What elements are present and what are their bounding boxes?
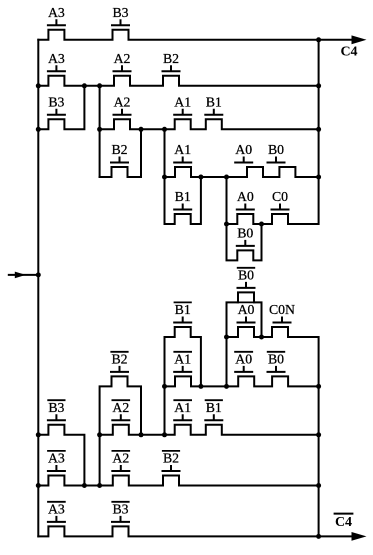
svg-text:B1: B1 — [206, 400, 222, 415]
wire row4 lower — [165, 376, 319, 386]
svg-text:B2: B2 — [163, 51, 179, 66]
wire row1 lower (C4bar output row) — [38, 526, 353, 536]
svg-text:B3: B3 — [48, 94, 64, 109]
transistor A1 at x=182.7 row y=129.3 — [173, 94, 192, 115]
svg-text:B0: B0 — [268, 142, 284, 157]
transistor A3bar at x=56.4 row y=536.4 — [47, 501, 66, 522]
transistor B1bar at x=182.7 row y=337 — [173, 302, 192, 323]
junction dots — [36, 83, 41, 88]
transistor B3bar at x=56.4 row y=434.8 — [47, 400, 66, 421]
transistor A0 at x=245.3 row y=224 — [236, 189, 255, 210]
wire row3 left segment with riser — [38, 86, 84, 130]
wire row2 — [38, 76, 318, 86]
svg-text:A3: A3 — [48, 51, 65, 66]
transistor C0N at x=282 row y=337 — [269, 302, 295, 323]
svg-text:B2: B2 — [111, 351, 127, 366]
wire row3 lower right segment — [100, 425, 319, 435]
svg-text:A2: A2 — [114, 51, 131, 66]
transistor B0bar at x=246 row y=302.4 — [237, 267, 256, 288]
wire carry input arrow shaft — [9, 274, 39, 276]
transistor B0 at x=276 row y=177 — [267, 142, 286, 163]
svg-text:A0: A0 — [235, 351, 252, 366]
C4bar output arrowhead — [352, 532, 367, 541]
svg-text:A1: A1 — [174, 400, 191, 415]
transistor B2 at x=171 row y=85.8 — [162, 51, 181, 72]
wire row1 (C4 output row) — [38, 30, 353, 40]
transistor B1 at x=213.8 row y=129.3 — [204, 94, 223, 115]
transistor A2bar at x=120.8 row y=434.8 — [111, 400, 130, 421]
transistor A2 at x=122 row y=85.8 — [113, 51, 132, 72]
transistor A2bar at x=120.8 row y=485.5 — [111, 451, 130, 472]
wire B0bar branch top and legs — [227, 292, 262, 386]
svg-text:C0N: C0N — [269, 302, 295, 317]
transistor A1bar at x=182.7 row y=434.8 — [173, 400, 192, 421]
svg-text:A0: A0 — [235, 142, 252, 157]
wire B2 branch bottom — [100, 129, 141, 177]
wire left input rail — [37, 40, 39, 537]
transistor B2bar at x=119.5 row y=386.4 — [110, 351, 129, 372]
svg-text:A1: A1 — [174, 142, 191, 157]
svg-text:C4: C4 — [340, 44, 357, 59]
svg-text:A0: A0 — [238, 302, 255, 317]
wire row2 lower — [38, 476, 318, 486]
svg-text:B0: B0 — [268, 351, 284, 366]
svg-text:A1: A1 — [174, 351, 191, 366]
transistor A1 at x=182.7 row y=177 — [173, 142, 192, 163]
transistor C0 at x=280 row y=224 — [271, 189, 290, 210]
transistor A2 at x=122 row y=129.3 — [113, 94, 132, 115]
svg-text:B0: B0 — [238, 267, 254, 282]
svg-text:A2: A2 — [114, 94, 131, 109]
svg-text:B3: B3 — [112, 501, 128, 516]
svg-text:B2: B2 — [111, 142, 127, 157]
svg-text:B3: B3 — [48, 400, 64, 415]
wire vertical x=226.5 and B0 branch — [227, 177, 262, 260]
net label C4bar — [334, 514, 354, 530]
svg-text:B3: B3 — [112, 5, 128, 20]
wire row4 — [165, 167, 319, 177]
transistor A0 at x=243.7 row y=177 — [234, 142, 253, 163]
svg-text:A3: A3 — [48, 451, 65, 466]
transistor B3 at x=56.4 row y=129.3 — [47, 94, 66, 115]
wire row3 right segment — [100, 119, 319, 129]
wire row3 lower left segment with dropper — [38, 425, 84, 486]
transistor B2bar at x=171 row y=485.5 — [162, 451, 181, 472]
svg-text:B1: B1 — [175, 302, 191, 317]
transistor A0bar at x=243.7 row y=386.4 — [234, 351, 253, 372]
wire vertical x=164.5 and B1 branch — [165, 129, 201, 224]
svg-text:B2: B2 — [163, 451, 179, 466]
svg-text:B0: B0 — [237, 225, 253, 240]
wire B2bar branch and vertical x=99.6 lower — [100, 376, 141, 485]
svg-text:A1: A1 — [174, 94, 191, 109]
transistor A1bar at x=182.7 row y=386.4 — [173, 351, 192, 372]
svg-text:B1: B1 — [175, 189, 191, 204]
svg-text:A2: A2 — [112, 400, 129, 415]
svg-text:B1: B1 — [206, 94, 222, 109]
transistor A3 at x=56.4 row y=85.8 — [47, 51, 66, 72]
wire row5 and right rail — [227, 40, 319, 224]
transistor A0bar at x=246 row y=337 — [237, 302, 256, 323]
transistor B3bar at x=120.5 row y=536.4 — [111, 501, 130, 522]
svg-text:A2: A2 — [112, 451, 129, 466]
transistor B0 at x=245.3 row y=260.4 — [236, 225, 255, 246]
svg-text:C4: C4 — [335, 515, 352, 530]
svg-text:A3: A3 — [48, 501, 65, 516]
input carry arrowhead — [15, 272, 26, 279]
transistor A3 at x=56.4 row y=39.8 — [47, 5, 66, 26]
svg-text:C0: C0 — [272, 189, 288, 204]
wire vertical x=99.6 row2 to B2 branch — [99, 86, 101, 177]
svg-text:A0: A0 — [237, 189, 254, 204]
transistor B0bar at x=276 row y=386.4 — [267, 351, 286, 372]
transistor B3 at x=120.5 row y=39.8 — [111, 5, 130, 26]
transistor B2 at x=119.5 row y=177 — [110, 142, 129, 163]
svg-text:A3: A3 — [48, 5, 65, 20]
C4 output arrowhead — [352, 35, 367, 44]
transistor A3bar at x=56.4 row y=485.5 — [47, 451, 66, 472]
wire B1bar branch and vertical x=164.5 lower — [165, 327, 201, 435]
wire row5 lower and right rail lower — [227, 327, 319, 536]
transistor B1 at x=182.7 row y=224 — [173, 189, 192, 210]
transistor B1bar at x=213.8 row y=434.8 — [204, 400, 223, 421]
